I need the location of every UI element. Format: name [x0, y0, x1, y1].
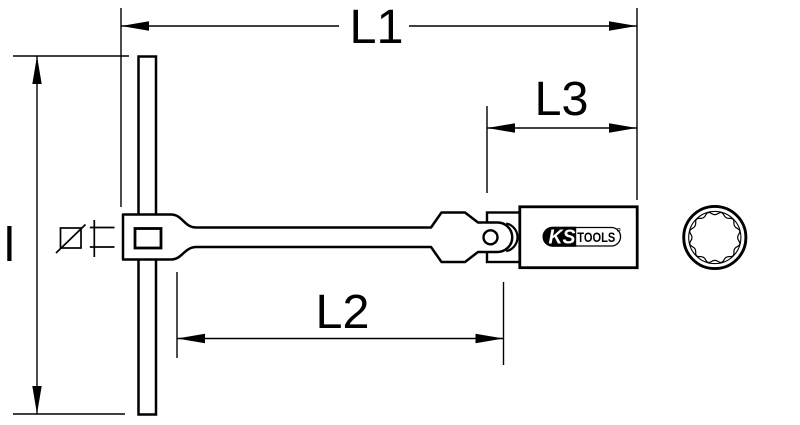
KS TOOLS logo: [543, 226, 620, 248]
L1 arrow left: [121, 21, 149, 30]
L2 arrow left: [177, 334, 205, 343]
square drive symbol: [56, 225, 86, 254]
svg-text:l: l: [4, 218, 15, 272]
socket body: [520, 207, 637, 268]
drive square hole: [135, 229, 161, 249]
handle bar vertical: [139, 57, 157, 415]
l extension line bottom: [13, 413, 125, 415]
L1 extension line left: [120, 8, 122, 207]
svg-text:TOOLS: TOOLS: [577, 229, 615, 245]
svg-text:L3: L3: [535, 72, 589, 126]
L2 extension line left: [176, 272, 178, 358]
l dimension line: [36, 56, 38, 414]
L1 arrow right: [609, 21, 637, 30]
svg-text:L1: L1: [350, 0, 404, 54]
joint pin circle: [484, 230, 498, 244]
socket ring 12-point profile: [690, 213, 740, 263]
L2 extension line right: [503, 282, 505, 365]
l arrow top: [32, 56, 41, 84]
square size tick lines: [90, 220, 115, 257]
joint outer cap arc: [506, 223, 517, 251]
l extension line top: [13, 55, 129, 57]
L3 arrow left: [487, 123, 515, 132]
L1 dimension line: [121, 25, 339, 27]
L3 arrow right: [609, 123, 637, 132]
svg-text:L2: L2: [316, 285, 370, 339]
socket ring outer circle: [684, 206, 746, 268]
L1/L3 extension line right: [636, 8, 638, 200]
L2 dimension line: [177, 338, 504, 340]
wrench body silhouette: [123, 213, 512, 263]
l arrow bottom: [32, 386, 41, 414]
svg-text:KS: KS: [549, 226, 577, 248]
joint yoke bracket: [487, 213, 520, 263]
L3 dimension line: [487, 127, 637, 129]
L3 extension line left: [486, 106, 488, 193]
socket ring inner circle: [689, 211, 741, 263]
L2 arrow right: [476, 334, 504, 343]
